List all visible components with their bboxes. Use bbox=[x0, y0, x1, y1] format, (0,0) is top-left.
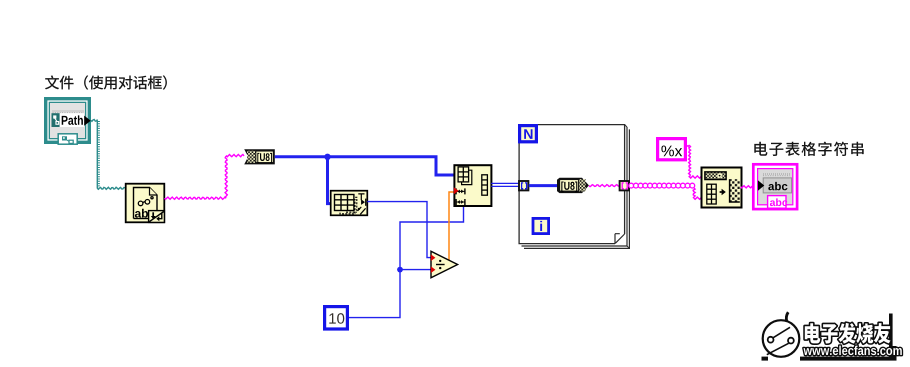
function: string to byte array bbox=[244, 149, 275, 164]
constant: 10 bbox=[325, 307, 348, 329]
coercion dot bbox=[431, 254, 436, 261]
coercion dot bbox=[454, 187, 459, 194]
watermark: elecfans logo bbox=[762, 312, 902, 360]
label 电子表格字符串 bbox=[754, 142, 863, 156]
wire: path (teal hatched) bbox=[91, 120, 125, 190]
constant: %x bbox=[658, 139, 686, 160]
function: array to spreadsheet string bbox=[702, 168, 742, 208]
wire: i32 scalars bbox=[349, 202, 464, 318]
tunnel: auto-index in bbox=[519, 181, 528, 190]
control: file path bbox=[44, 97, 91, 144]
function: read from text file bbox=[126, 184, 165, 223]
wire: format string bbox=[687, 145, 690, 146]
junction dot bbox=[397, 267, 403, 273]
terminal: N bbox=[520, 126, 537, 142]
wire: 2D array (double blue) bbox=[491, 183, 519, 186]
function: byte array to string bbox=[557, 178, 589, 193]
wire: DBL (orange) bbox=[449, 192, 454, 260]
function: array size bbox=[331, 191, 368, 216]
wire: string array (magenta coil) bbox=[629, 183, 695, 188]
junction dot bbox=[324, 154, 330, 160]
wire: spreadsheet string out bbox=[741, 186, 753, 188]
indicator: spreadsheet string bbox=[753, 164, 797, 209]
wire: U8 1D array (thick blue) bbox=[275, 157, 454, 204]
terminal: i bbox=[533, 218, 549, 233]
coercion dot bbox=[431, 266, 436, 273]
wire: string (magenta wavy) bbox=[165, 155, 245, 200]
wire: U8 array inside loop bbox=[529, 184, 557, 187]
structure: for loop bbox=[519, 125, 629, 249]
function: reshape array bbox=[454, 165, 492, 206]
wire: string inside loop bbox=[589, 185, 619, 187]
label 文件（使用对话框） bbox=[45, 75, 167, 89]
tunnel: auto-index out bbox=[620, 181, 629, 190]
function: divide bbox=[431, 251, 458, 277]
